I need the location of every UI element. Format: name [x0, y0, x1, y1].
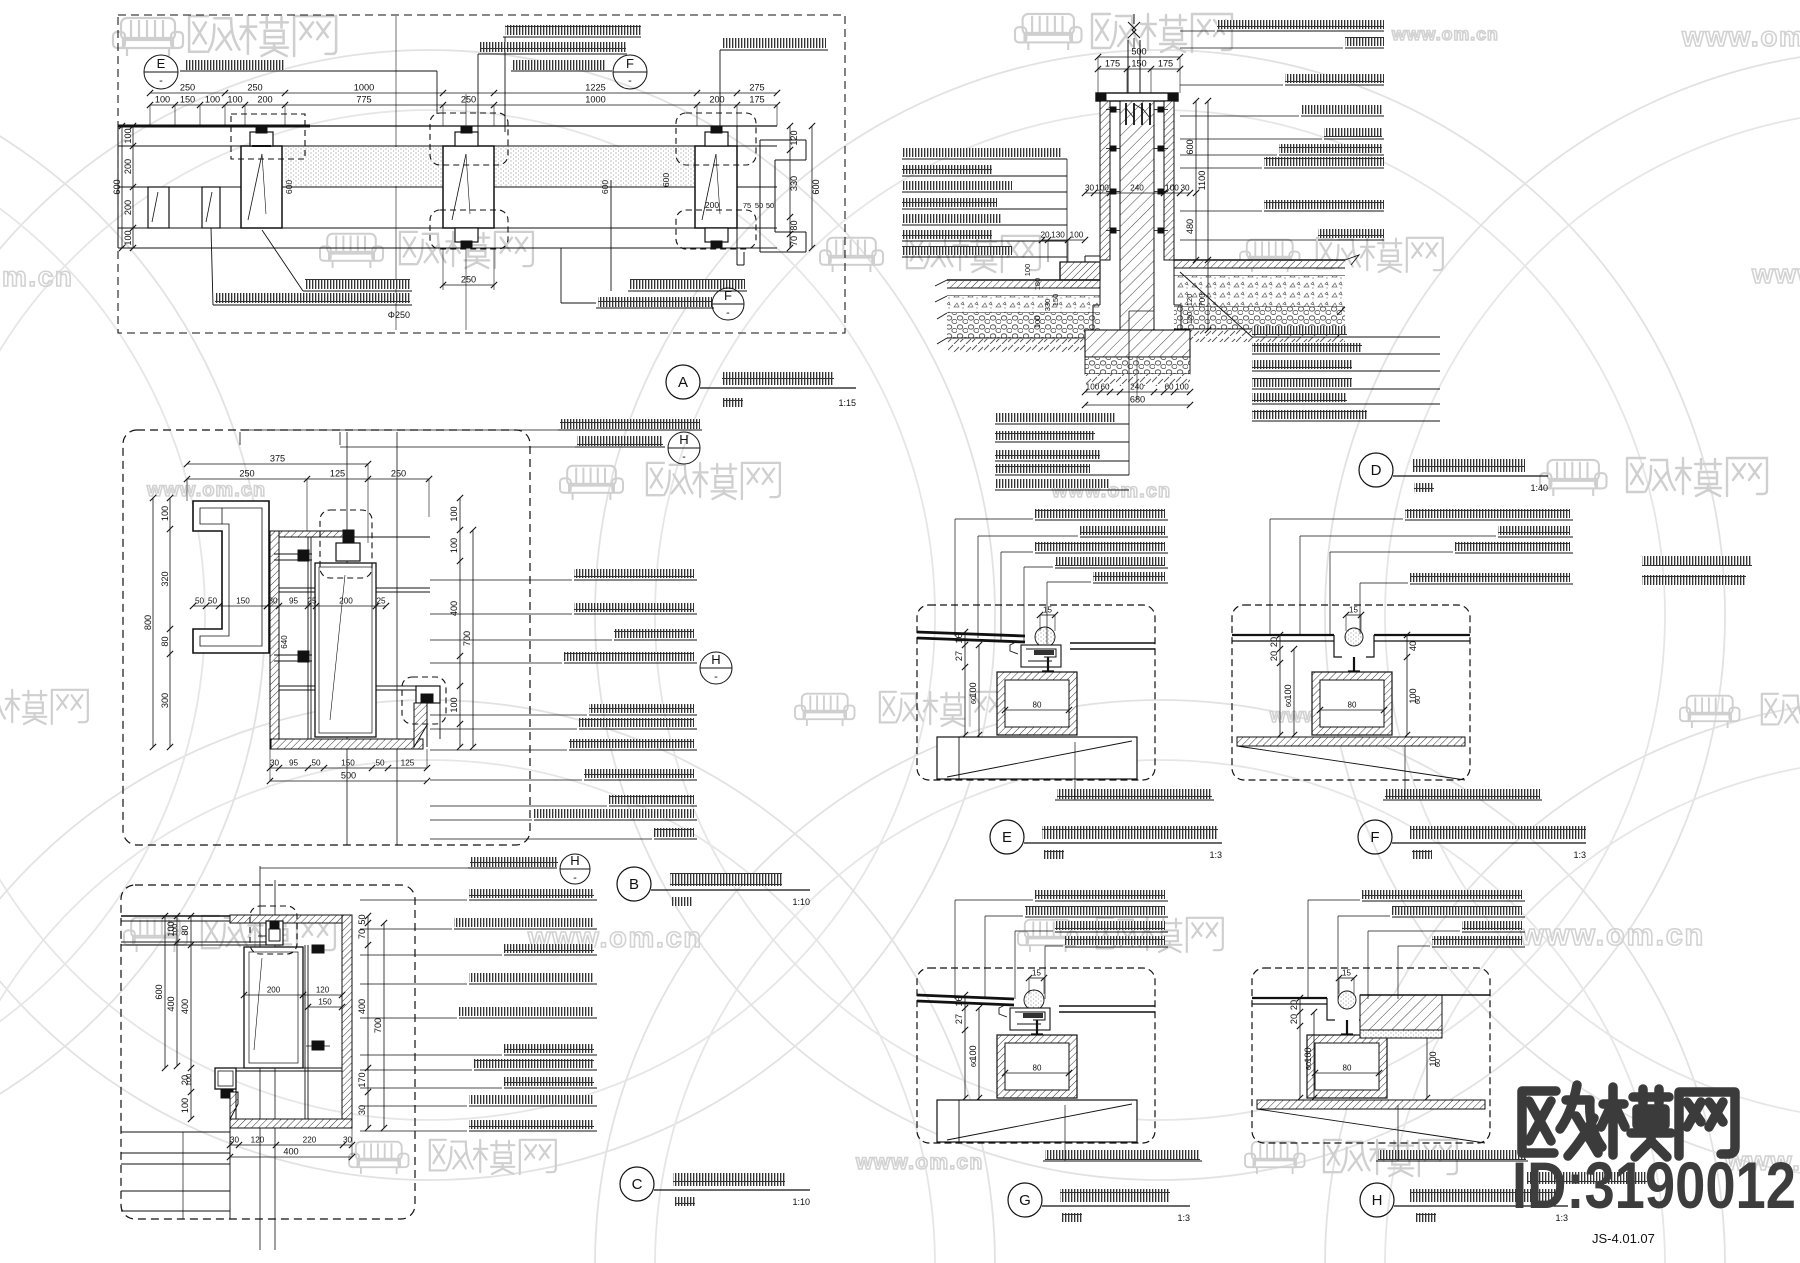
svg-text:95: 95 — [289, 759, 299, 768]
svg-text:1100: 1100 — [1197, 171, 1207, 191]
detail E dashed border — [917, 605, 1155, 780]
detail B stone panel — [315, 563, 376, 737]
svg-text:JS-4.01.07: JS-4.01.07 — [1592, 1231, 1655, 1246]
detail F square tube 80x60 — [1312, 672, 1392, 735]
svg-text:120: 120 — [251, 1136, 265, 1145]
svg-text:E: E — [157, 56, 166, 71]
detail A beam lines — [118, 145, 777, 147]
svg-text:1:3: 1:3 — [1573, 850, 1586, 860]
detail F bolt — [1353, 657, 1355, 690]
detail D top dims — [1098, 56, 1180, 58]
svg-text:250: 250 — [461, 95, 476, 105]
detail E 15 dim top — [1040, 614, 1055, 616]
svg-text:95: 95 — [289, 597, 299, 606]
svg-text:250: 250 — [239, 469, 254, 479]
svg-text:D: D — [1371, 462, 1382, 479]
svg-text:16: 16 — [954, 633, 964, 643]
detail E glass panels — [917, 632, 1025, 636]
svg-text:50: 50 — [375, 759, 385, 768]
svg-text:200: 200 — [339, 597, 353, 606]
watermark sofa+logo band2 left — [320, 234, 383, 268]
detail D column inner lines — [1109, 101, 1111, 260]
svg-text:20: 20 — [1269, 637, 1279, 647]
svg-text:80: 80 — [1348, 701, 1357, 710]
detail F dashed border — [1232, 605, 1470, 780]
svg-text:80: 80 — [160, 636, 170, 646]
svg-text:700: 700 — [462, 631, 472, 646]
title D — [1359, 453, 1393, 487]
detail A construction verticals — [395, 16, 397, 330]
svg-text:200: 200 — [709, 95, 724, 105]
svg-text:200: 200 — [123, 159, 133, 174]
detail B dashed zoom box top — [320, 510, 372, 578]
detail B wall top band — [272, 531, 352, 537]
hidden caption under logo — [1527, 1172, 1647, 1184]
detail C dashed zoom box — [250, 906, 297, 954]
detail G bottom label — [1045, 1150, 1200, 1160]
svg-text:1225: 1225 — [585, 83, 605, 93]
detail E glass shoe — [1021, 645, 1061, 667]
svg-text:60: 60 — [1304, 1062, 1313, 1070]
detail A label top-left — [185, 60, 285, 70]
svg-text:150: 150 — [318, 998, 332, 1007]
svg-text:250: 250 — [180, 83, 195, 93]
detail B right vertical dims — [459, 498, 461, 747]
svg-text:www.om.cn: www.om.cn — [855, 1151, 984, 1174]
svg-text:300: 300 — [160, 693, 170, 708]
watermark sofa+logo band2 mid — [820, 238, 883, 272]
detail C top anchor assembly — [266, 921, 283, 945]
svg-text:15: 15 — [1342, 969, 1351, 978]
svg-text:120: 120 — [1185, 294, 1194, 307]
svg-text:500: 500 — [341, 771, 356, 781]
svg-text:120: 120 — [316, 986, 330, 995]
detail H square tube 80x60 — [1307, 1035, 1387, 1098]
svg-text:60: 60 — [1164, 383, 1174, 392]
svg-text:100: 100 — [968, 1045, 978, 1060]
svg-text:150: 150 — [1051, 294, 1060, 307]
svg-text:100: 100 — [1033, 316, 1042, 329]
svg-text:15: 15 — [1043, 606, 1052, 615]
detail D right vertical dims — [1195, 101, 1197, 260]
svg-text:100: 100 — [170, 924, 179, 937]
svg-text:400: 400 — [180, 999, 190, 1014]
detail G labels — [1035, 890, 1165, 899]
detail A dashed zoom box 3a — [676, 113, 756, 165]
detail C top hatch band — [230, 915, 352, 923]
big logo 欧模网 — [1522, 1085, 1735, 1157]
svg-text:100: 100 — [1070, 231, 1084, 240]
detail D right ground — [1174, 259, 1345, 261]
detail D column stone right band — [1164, 101, 1174, 260]
svg-text:www.om.cn: www.om.cn — [1681, 21, 1800, 52]
svg-text:100: 100 — [1095, 184, 1109, 193]
svg-text:320: 320 — [160, 571, 170, 586]
svg-text:500: 500 — [1131, 47, 1146, 57]
svg-text:175: 175 — [749, 95, 764, 105]
svg-text:1000: 1000 — [585, 95, 605, 105]
svg-text:30: 30 — [343, 1136, 353, 1145]
watermark sofa+logo band3 mid — [560, 466, 623, 500]
detail F left vdims — [1279, 635, 1281, 735]
detail D bottom-left label column — [995, 413, 1115, 422]
svg-text:70: 70 — [789, 236, 799, 246]
note text right of F — [1642, 556, 1752, 566]
detail G 80 dim — [1005, 1072, 1069, 1074]
detail C mid anchors — [312, 945, 324, 953]
svg-text:600: 600 — [154, 984, 164, 999]
svg-text:100: 100 — [123, 128, 133, 143]
detail F 15 dim top — [1346, 614, 1361, 616]
detail A dim row 1 — [150, 92, 777, 94]
svg-text:100: 100 — [1303, 1047, 1313, 1062]
detail D right label column — [1217, 20, 1384, 29]
svg-text:700: 700 — [373, 1018, 383, 1033]
detail C bottom band — [230, 1119, 352, 1128]
detail D column stone left band — [1100, 101, 1110, 260]
detail B mid anchors — [274, 553, 312, 555]
svg-text:100: 100 — [160, 506, 170, 521]
detail E square tube 80x60 — [997, 672, 1077, 735]
watermark sofa+logo top-left — [113, 18, 183, 56]
detail D curb — [1060, 262, 1100, 280]
svg-text:-: - — [159, 75, 163, 87]
svg-text:50: 50 — [766, 201, 774, 210]
svg-text:100: 100 — [1165, 184, 1179, 193]
detail H bolt — [1346, 1020, 1348, 1053]
detail A mullion 1 cap — [250, 132, 273, 146]
svg-text:100: 100 — [180, 1098, 190, 1113]
svg-text:27: 27 — [954, 1014, 964, 1024]
svg-text:100: 100 — [1283, 684, 1293, 699]
svg-text:375: 375 — [270, 454, 285, 464]
svg-text:600: 600 — [1185, 139, 1195, 154]
svg-text:400: 400 — [357, 999, 367, 1014]
svg-text:1:15: 1:15 — [838, 398, 856, 408]
detail G glass shoe — [1010, 1008, 1050, 1030]
svg-text:600: 600 — [600, 180, 610, 194]
svg-text:20: 20 — [1269, 651, 1279, 661]
detail A right end channel — [736, 126, 738, 265]
svg-text:25: 25 — [307, 597, 317, 606]
detail C stairs — [121, 1131, 230, 1133]
detail B inner rails — [307, 537, 309, 739]
svg-text:1:3: 1:3 — [1177, 1213, 1190, 1223]
svg-text:www.om.cn: www.om.cn — [1519, 918, 1705, 952]
detail D left ground break arrow — [935, 280, 947, 344]
svg-text:50: 50 — [195, 597, 205, 606]
detail D anchors — [1111, 107, 1116, 112]
svg-text:275: 275 — [749, 83, 764, 93]
svg-text:30: 30 — [1180, 184, 1190, 193]
svg-text:20: 20 — [1289, 1000, 1299, 1010]
svg-text:F: F — [626, 56, 634, 71]
svg-text:100: 100 — [123, 230, 133, 245]
detail B top anchor — [336, 543, 360, 561]
detail A right vertical dims — [789, 126, 791, 248]
detail C right labels — [469, 889, 594, 898]
title F — [1358, 820, 1392, 854]
svg-text:60: 60 — [1433, 1059, 1442, 1067]
svg-text:25: 25 — [376, 597, 386, 606]
detail D bottom-right label column — [1252, 326, 1347, 335]
svg-text:H: H — [1372, 1192, 1383, 1209]
detail A dashed zoom box 2b — [430, 210, 508, 249]
svg-text:170: 170 — [357, 1072, 367, 1087]
detail C dashed border — [121, 885, 415, 1219]
svg-text:40: 40 — [1408, 641, 1418, 651]
title G — [1008, 1183, 1042, 1217]
svg-text:220: 220 — [303, 1136, 317, 1145]
svg-text:200: 200 — [705, 200, 719, 210]
detail A dotted infill — [285, 147, 694, 186]
svg-text:F: F — [1370, 829, 1379, 846]
detail F alum panels — [1232, 634, 1334, 636]
svg-text:200: 200 — [267, 986, 281, 995]
svg-text:250: 250 — [247, 83, 262, 93]
svg-text:50: 50 — [311, 759, 321, 768]
svg-text:150: 150 — [1131, 59, 1146, 69]
watermark sofa+logo band2 right — [1240, 240, 1300, 272]
detail G bottom beam — [937, 1100, 1137, 1142]
svg-text:100: 100 — [449, 697, 459, 712]
detail E sealant blob — [1035, 627, 1055, 647]
svg-text:600: 600 — [284, 180, 294, 194]
detail A dashed zoom box 2a — [430, 113, 508, 165]
svg-text:100: 100 — [184, 1074, 193, 1087]
svg-text:-: - — [628, 75, 632, 87]
svg-text:27: 27 — [954, 651, 964, 661]
svg-text:80: 80 — [1033, 1064, 1042, 1073]
svg-text:30: 30 — [1085, 184, 1095, 193]
detail A 250 dim below mullion2 — [442, 248, 444, 290]
detail H labels — [1362, 890, 1522, 899]
detail A left small panel 1 — [148, 187, 169, 228]
watermark sofa+logo top-mid-right — [1015, 14, 1082, 50]
detail C construction verticals — [259, 866, 261, 1250]
svg-text:100: 100 — [1175, 383, 1189, 392]
detail B mid dims — [193, 605, 267, 607]
detail D rebar top — [1125, 103, 1127, 125]
svg-text:800: 800 — [143, 615, 153, 630]
svg-text:1:3: 1:3 — [1209, 850, 1222, 860]
detail B C-channel — [193, 501, 269, 653]
detail B lower-right elements — [416, 686, 440, 703]
svg-text:B: B — [629, 876, 639, 893]
detail D 20-130-100 dims — [1042, 239, 1085, 241]
svg-text:20: 20 — [1289, 1014, 1299, 1024]
svg-text:80: 80 — [1343, 1064, 1352, 1073]
svg-text:150: 150 — [180, 95, 195, 105]
svg-text:125: 125 — [401, 759, 415, 768]
detail D column below ground — [1099, 260, 1101, 305]
detail H dashed border — [1252, 968, 1490, 1143]
detail E bottom label — [1057, 789, 1212, 799]
svg-text:600: 600 — [112, 179, 122, 194]
detail C top label + H — [470, 857, 558, 867]
svg-text:175: 175 — [1158, 59, 1173, 69]
svg-text:30: 30 — [357, 1105, 367, 1115]
detail H 80 dim — [1315, 1072, 1379, 1074]
svg-text:C: C — [632, 1176, 643, 1193]
detail G square tube 80x60 — [997, 1035, 1077, 1098]
svg-text:50: 50 — [208, 597, 218, 606]
svg-text:480: 480 — [1185, 219, 1195, 234]
svg-text:20: 20 — [1040, 231, 1050, 240]
detail A dashed zoom box 1 — [231, 114, 305, 159]
detail A bottom labels — [305, 279, 410, 289]
svg-text:100: 100 — [968, 682, 978, 697]
detail B top labels — [560, 419, 700, 429]
detail B ref circle H mid — [700, 652, 732, 684]
svg-text:200: 200 — [123, 200, 133, 215]
title B — [617, 867, 651, 901]
svg-text:15: 15 — [1032, 969, 1041, 978]
detail A bottom mid labels — [630, 279, 745, 289]
svg-text:1:40: 1:40 — [1530, 483, 1548, 493]
detail A mullion block 3 — [695, 146, 737, 228]
svg-text:150: 150 — [236, 597, 250, 606]
detail A mullion 3 caps — [705, 132, 728, 146]
svg-text:A: A — [678, 374, 688, 391]
svg-text:H: H — [570, 853, 579, 868]
svg-text:330: 330 — [789, 176, 799, 191]
svg-text:H: H — [711, 652, 720, 667]
detail B wall vertical band — [270, 531, 279, 749]
detail E labels — [1035, 509, 1165, 518]
svg-text:180: 180 — [1033, 278, 1042, 291]
title E — [990, 820, 1024, 854]
detail C inner rails — [304, 945, 306, 1119]
detail D foundation block — [1085, 330, 1190, 357]
detail D left label column — [902, 148, 1062, 157]
watermark sofa+logo band5 mid — [1018, 920, 1078, 952]
svg-text:600: 600 — [661, 173, 671, 187]
detail D column core hatch — [1120, 101, 1154, 330]
detail D column cap — [1096, 93, 1178, 101]
detail A ref circle F bottom — [712, 288, 744, 320]
detail E bolt — [1047, 657, 1049, 690]
watermark sofa+logo band3 right — [1540, 460, 1607, 496]
detail A left small panel 2 — [202, 187, 220, 228]
svg-text:640: 640 — [280, 635, 289, 649]
detail G dashed border — [917, 968, 1155, 1143]
svg-text:680: 680 — [1130, 395, 1145, 405]
svg-text:60: 60 — [1100, 383, 1110, 392]
svg-text:60: 60 — [1284, 699, 1293, 707]
svg-text:75: 75 — [743, 201, 751, 210]
detail B right label column — [574, 569, 694, 578]
svg-text:100: 100 — [1086, 383, 1100, 392]
svg-text:www.om.cn: www.om.cn — [1751, 258, 1800, 289]
detail C top slab lines — [121, 915, 352, 917]
detail H 15 dim top — [1339, 977, 1354, 979]
svg-text:ID:3190012: ID:3190012 — [1512, 1148, 1796, 1222]
detail F bottom beam — [1237, 737, 1465, 746]
detail B wall bottom band — [271, 739, 423, 749]
detail F bottom label — [1385, 789, 1540, 799]
detail C inner dims — [244, 994, 303, 996]
svg-text:100: 100 — [205, 95, 220, 105]
watermark sofa+logo band4 mid — [795, 694, 855, 726]
svg-text:15: 15 — [1349, 606, 1358, 615]
detail D 30-100-240-100-30 dims — [1085, 192, 1190, 194]
detail C right wall band — [342, 915, 352, 1128]
svg-text:150: 150 — [341, 759, 355, 768]
svg-text:1:10: 1:10 — [792, 897, 810, 907]
detail E 80 dim — [1005, 709, 1069, 711]
detail H stone — [1360, 995, 1442, 1030]
svg-text:125: 125 — [330, 469, 345, 479]
detail D left ground — [947, 279, 1100, 281]
svg-text:16: 16 — [954, 996, 964, 1006]
title A — [666, 365, 700, 399]
title H — [1360, 1183, 1394, 1217]
svg-text:H: H — [679, 432, 688, 447]
watermark sofa+logo band6 right — [1245, 1142, 1305, 1174]
svg-text:100: 100 — [227, 95, 242, 105]
svg-text:100: 100 — [449, 538, 459, 553]
svg-text:-: - — [682, 451, 686, 463]
detail C right vertical dims — [367, 916, 369, 1128]
detail F labels — [1405, 509, 1570, 518]
detail B bottom dims — [270, 767, 427, 769]
detail A dashed zoom box 3b — [676, 210, 756, 249]
svg-text:100: 100 — [449, 506, 459, 521]
svg-text:775: 775 — [356, 95, 371, 105]
detail B ref circle H top — [668, 432, 700, 464]
svg-text:80: 80 — [180, 925, 190, 935]
svg-text:70: 70 — [357, 929, 367, 939]
svg-text:60: 60 — [1413, 696, 1422, 704]
svg-text:-: - — [726, 307, 730, 319]
detail A dashed border — [118, 15, 845, 333]
svg-text:250: 250 — [461, 275, 476, 285]
svg-text:-: - — [573, 872, 577, 884]
detail A mullion block 1 — [241, 146, 282, 228]
svg-text:250: 250 — [391, 469, 406, 479]
detail F 80 dim — [1320, 709, 1384, 711]
svg-text:130: 130 — [1051, 231, 1065, 240]
svg-text:80: 80 — [1033, 701, 1042, 710]
svg-text:www.om.cn: www.om.cn — [146, 479, 266, 501]
watermark sofa+logo band6 left — [349, 1142, 409, 1174]
detail A ref circle F top — [613, 55, 647, 89]
detail A left vertical dims — [132, 126, 134, 248]
svg-text:www.om.cn: www.om.cn — [0, 261, 74, 292]
detail D break symbol top — [1127, 40, 1129, 93]
detail G left vdims — [964, 995, 966, 1098]
svg-text:F: F — [724, 288, 732, 303]
watermark circles — [0, 50, 995, 1180]
detail C left vertical dims — [176, 916, 178, 1066]
detail H alum panels — [1252, 997, 1327, 999]
svg-text:80: 80 — [789, 220, 799, 230]
detail G 15 dim top — [1029, 977, 1044, 979]
watermark sofa band4 right edge — [1680, 696, 1740, 728]
watermark sofa+logo band5 left — [124, 918, 187, 952]
svg-text:100: 100 — [155, 95, 170, 105]
svg-text:120: 120 — [789, 130, 799, 145]
svg-text:400: 400 — [283, 1147, 298, 1157]
svg-text:600: 600 — [811, 179, 821, 194]
svg-text:G: G — [1019, 1192, 1031, 1209]
svg-text:30: 30 — [230, 1136, 240, 1145]
detail E left vdims — [964, 632, 966, 735]
detail A beam top line (thick) — [118, 125, 310, 128]
svg-text:30: 30 — [270, 759, 280, 768]
svg-text:100: 100 — [1023, 264, 1032, 277]
